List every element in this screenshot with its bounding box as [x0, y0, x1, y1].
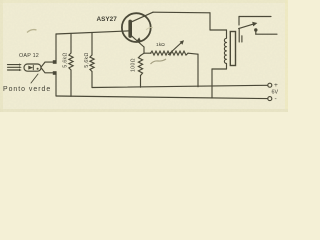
- wire: emitter down to node: [143, 47, 145, 53]
- transistor emitter arrowhead (PNP): [137, 37, 142, 42]
- wire: relay coil return vertical to bottom rail: [211, 69, 213, 98]
- relay switch common line top: [239, 16, 271, 18]
- terminal + circle: [268, 83, 272, 87]
- relay lever arrowhead: [252, 22, 257, 27]
- grain overlay: [0, 0, 288, 112]
- wire: left vertical upper (base rail down to photodiode anode square): [55, 34, 57, 61]
- wire: mid positive rail: [92, 85, 268, 87]
- transistor base bar: [128, 21, 132, 36]
- relay armature bar left: [238, 29, 240, 43]
- transistor emitter lead: [131, 35, 144, 47]
- paper vignette edges: [0, 0, 288, 3]
- relay switch lever: [239, 24, 253, 28]
- relay core bar: [230, 32, 235, 66]
- potentiometer arrow: [169, 40, 185, 54]
- photodiode green dot mark: [37, 68, 39, 70]
- photodiode anode lead: [41, 62, 53, 67]
- pencil smudge: [27, 30, 37, 33]
- wire: vertical from top wire down to relay coil feed: [209, 13, 211, 30]
- relay armature bar right: [241, 36, 243, 42]
- terminal - circle: [268, 97, 272, 101]
- resistor 100 ohm emitter zigzag: [138, 53, 144, 87]
- transistor collector lead: [131, 12, 153, 22]
- pencil mark in circle: [146, 27, 153, 30]
- wire: pot right end down to positive rail: [197, 54, 199, 87]
- relay contact output line: [256, 33, 277, 35]
- photodiode cathode lead: [41, 68, 53, 73]
- wire: top collector wire: [153, 11, 210, 14]
- wire: horizontal feed to relay coil top: [210, 29, 227, 31]
- transistor Q1 ASY27 circle: [122, 13, 151, 42]
- wire: base rail from photodiode corner to transistor base: [56, 31, 130, 34]
- paper background: [0, 0, 288, 112]
- relay switch pole vertical: [238, 17, 240, 26]
- junction square a: [53, 60, 57, 64]
- photodiode OAP12 envelope: [24, 64, 41, 71]
- relay fixed contact dot: [254, 28, 257, 31]
- pencil mark check: [151, 59, 167, 64]
- light arrows into photodiode: [8, 64, 22, 72]
- wire: relay coil bottom return horizontal: [212, 68, 227, 70]
- leader line for Ponto verde: [31, 74, 38, 83]
- relay fixed contact stem: [255, 31, 257, 34]
- potentiometer 1k zigzag: [144, 51, 198, 55]
- wire: left vertical lower (photodiode cathode square down to bottom rail): [55, 75, 57, 97]
- resistor R1 zigzag: [69, 33, 73, 96]
- resistor R2 zigzag: [90, 33, 94, 88]
- photodiode diode symbol: [28, 65, 33, 69]
- relay coil loops: [224, 30, 226, 69]
- wire: bottom negative rail: [56, 96, 268, 99]
- junction square b: [53, 71, 57, 75]
